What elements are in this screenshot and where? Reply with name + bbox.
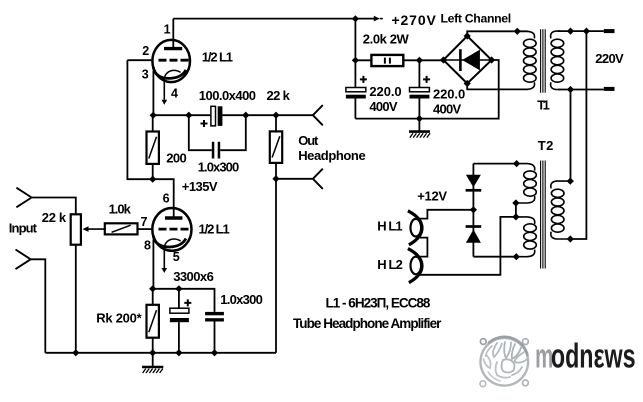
node: T2 primary bottom junction bbox=[567, 235, 574, 242]
node: junction T1 primary top lead bbox=[514, 28, 521, 35]
svg-text:7: 7 bbox=[141, 215, 148, 229]
svg-text:1.0x300: 1.0x300 bbox=[198, 160, 240, 175]
wire: +12V node to HL1 top lead bbox=[420, 210, 474, 219]
node: junction top rail / filter drop bbox=[352, 15, 359, 22]
resistor Rk 200 bbox=[147, 305, 159, 338]
transformer T2 primary winding bbox=[551, 181, 571, 239]
node: junction secondary bottom / vertical A bbox=[567, 86, 574, 93]
transformer T1 core bbox=[541, 29, 546, 93]
terminal: 220V top bbox=[604, 29, 615, 33]
wire: C 1.0x300 bottom lead bbox=[214, 322, 216, 353]
node: junction cathode rail / C 3300 top bbox=[175, 285, 182, 292]
svg-text:2: 2 bbox=[142, 44, 149, 58]
transformer T2 core bbox=[541, 161, 546, 269]
wire: V1 plate lead pin1 to top rail bbox=[172, 19, 174, 49]
node: junction C3300 bottom bbox=[175, 349, 182, 356]
svg-text:1: 1 bbox=[164, 23, 171, 37]
svg-text:L1 - 6Н23П, ECC88: L1 - 6Н23П, ECC88 bbox=[326, 296, 431, 311]
wire: C2 top lead bbox=[418, 60, 420, 87]
transformer T2 secondary upper winding bbox=[516, 164, 536, 203]
wire: C1 bottom lead bbox=[354, 99, 356, 119]
svg-text:H L1: H L1 bbox=[377, 219, 402, 234]
svg-text:220.0: 220.0 bbox=[369, 84, 401, 99]
tube V1b cathode bbox=[153, 236, 186, 247]
svg-text:1/2 L1: 1/2 L1 bbox=[199, 222, 230, 237]
lamp HL2 heater bbox=[408, 249, 422, 283]
wire: V1a cathode lead pin3 to output rail bbox=[152, 71, 154, 115]
transformer T1 secondary winding bbox=[551, 31, 564, 89]
svg-text:+270V: +270V bbox=[392, 12, 437, 28]
wire: bridge bottom corner to T1 primary bottom bbox=[467, 84, 527, 90]
node: T2 secondary upper bottom junction bbox=[512, 199, 519, 206]
capacitor C 100.0x400 coupling bbox=[201, 106, 223, 127]
logo: modnews fan graphic bbox=[480, 337, 528, 387]
svg-text:8: 8 bbox=[144, 239, 151, 253]
svg-text:200: 200 bbox=[166, 151, 186, 166]
wire: cathode node rail bbox=[153, 289, 215, 312]
tube V1a upper triode envelope bbox=[152, 40, 190, 82]
ground: filter ground symbol bbox=[409, 119, 430, 138]
wire: vertical A T1 bottom to T2 right top bbox=[570, 90, 572, 182]
svg-text:T2: T2 bbox=[538, 138, 554, 153]
tube V1b heater arc bbox=[164, 239, 180, 247]
svg-text:+12V: +12V bbox=[417, 188, 447, 203]
svg-text:T1: T1 bbox=[537, 97, 550, 112]
node: junction C1.0x300 bottom bbox=[211, 349, 218, 356]
transformer T1 primary winding bbox=[524, 31, 537, 89]
node: T2 secondary upper top junction bbox=[513, 160, 520, 167]
svg-text:Left Channel: Left Channel bbox=[441, 11, 512, 25]
wire: output rail left segment bbox=[153, 114, 211, 116]
node: +12V junction between diodes bbox=[470, 206, 477, 213]
wire: bypass loop right bbox=[220, 115, 246, 150]
svg-text:+135V: +135V bbox=[182, 179, 218, 194]
resistor R 22k output bbox=[270, 131, 282, 163]
svg-text:4: 4 bbox=[171, 87, 178, 101]
svg-text:6: 6 bbox=[163, 191, 170, 205]
capacitor C1 220.0 400V bbox=[346, 76, 367, 99]
node: bridge left corner bbox=[440, 56, 447, 63]
bridge rectifier diamond bbox=[443, 36, 491, 84]
wire: ground rail to bridge right corner bbox=[355, 60, 498, 119]
wire: bottom ground rail bbox=[45, 352, 276, 354]
ground: main ground symbol bbox=[142, 353, 163, 373]
node: +135V node junction bbox=[149, 176, 156, 183]
wire: V1a grid lead pin2 bbox=[127, 59, 152, 61]
wire: filter node to R 2.0k left lead bbox=[355, 59, 371, 61]
resistor R 1.0k grid stopper bbox=[105, 223, 138, 234]
wire: input sleeve to ground rail bbox=[31, 259, 46, 353]
svg-text:1.0x300: 1.0x300 bbox=[220, 292, 262, 307]
terminal: 220V bottom bbox=[604, 87, 615, 91]
arrow: +270V supply arrow bbox=[355, 16, 382, 22]
wire: drop from top rail to filter node bbox=[354, 19, 356, 61]
svg-text:1/2 L1: 1/2 L1 bbox=[202, 50, 233, 65]
wire: T2 center tap series link bbox=[515, 203, 517, 217]
jack: headphone sleeve bbox=[276, 169, 323, 189]
wire: R200 bottom lead bbox=[152, 164, 154, 179]
tube V1a plate bbox=[164, 47, 182, 50]
node: junction cathode node left bbox=[149, 285, 156, 292]
svg-text:Headphone: Headphone bbox=[298, 148, 366, 163]
tube V1b lower triode envelope bbox=[152, 208, 191, 251]
wire: bypass loop left bbox=[189, 115, 212, 150]
wire: input tip to pot top bbox=[32, 198, 76, 215]
node: bridge top corner bbox=[464, 32, 471, 39]
diode D2 (bottom) bbox=[466, 227, 482, 243]
wire: T2 lower winding bottom to diode D2 bbox=[473, 256, 516, 258]
wire: V1b cathode lead pin8 bbox=[152, 240, 154, 289]
wire: T1 secondary top to 220V terminal bbox=[558, 30, 604, 32]
arrow: pot wiper bbox=[83, 226, 105, 232]
svg-text:100.0x400: 100.0x400 bbox=[199, 88, 256, 103]
capacitor C2 220.0 400V bbox=[410, 76, 431, 99]
wire: Rk bottom lead bbox=[152, 338, 154, 353]
jack: headphone tip bbox=[313, 105, 323, 125]
arrow: V1b heater pin 5 bbox=[162, 247, 168, 273]
svg-text:Tube Headphone Amplifier: Tube Headphone Amplifier bbox=[293, 316, 442, 331]
arrow: V1a heater pin 4 bbox=[162, 79, 168, 105]
wire: C 3300 bottom lead bbox=[178, 322, 180, 353]
node: junction pot bottom bbox=[72, 349, 79, 356]
wire: output resistor bottom lead down to ground rail bbox=[275, 163, 277, 353]
svg-text:odnεws: odnεws bbox=[551, 338, 636, 375]
wire: V1b grid lead pin7 bbox=[138, 228, 153, 230]
wire: C 3300 top lead bbox=[178, 289, 180, 308]
capacitor C 1.0x300 cathode bbox=[205, 312, 224, 322]
svg-text:3: 3 bbox=[142, 68, 149, 82]
wire: diode column vertical bbox=[472, 164, 474, 257]
wire: pot bottom lead bbox=[75, 245, 77, 353]
wire: bridge top corner to T1 primary top bbox=[467, 31, 527, 36]
wire: +270V top rail bbox=[173, 18, 355, 20]
node: bridge bottom corner bbox=[464, 80, 471, 87]
node: junction right of R 2.0k / C2 top bbox=[416, 57, 423, 64]
wire: vertical B T1 top to T2 right bottom bbox=[570, 31, 586, 239]
tube V1a heater arc bbox=[164, 70, 180, 78]
node: junction secondary top / vertical B bbox=[583, 28, 590, 35]
wire: T1 secondary bottom to 220V terminal bbox=[558, 89, 604, 91]
svg-text:5: 5 bbox=[173, 250, 180, 264]
wire: R 2.0k right lead to bridge left corner bbox=[403, 59, 443, 61]
svg-text:3300x6: 3300x6 bbox=[173, 269, 214, 284]
svg-text:2.0k 2W: 2.0k 2W bbox=[363, 32, 410, 47]
wire: C1 top lead bbox=[354, 60, 356, 87]
node: T2 primary top junction bbox=[567, 178, 574, 185]
svg-text:H L2: H L2 bbox=[377, 257, 403, 272]
svg-text:220V: 220V bbox=[595, 51, 624, 66]
diode D1 (top) bbox=[466, 175, 482, 191]
svg-text:22 k: 22 k bbox=[267, 88, 291, 103]
node: junction cathode / output rail bbox=[150, 112, 157, 119]
wire: HL1 bottom to HL2 top bbox=[418, 238, 427, 257]
wire: Rk top lead bbox=[152, 289, 154, 305]
svg-text:400V: 400V bbox=[369, 99, 398, 114]
tube V1a cathode bbox=[153, 67, 186, 78]
resistor R 2.0k 2W bbox=[371, 55, 403, 66]
svg-text:Out: Out bbox=[298, 133, 319, 148]
wire: output resistor top lead bbox=[275, 115, 277, 131]
node: junction headphone sleeve bbox=[272, 175, 279, 182]
node: T2 center tap junction bbox=[512, 213, 519, 220]
node: T2 secondary lower bottom junction bbox=[513, 253, 520, 260]
node: junction output resistor top bbox=[272, 112, 279, 119]
tube V1b grid bbox=[159, 228, 189, 231]
tube V1b plate bbox=[165, 216, 182, 219]
svg-text:22 k: 22 k bbox=[42, 210, 67, 225]
wire: grid feedback line to +135V node bbox=[127, 60, 173, 218]
wire: C2 bottom lead bbox=[418, 99, 420, 119]
node: junction bypass branch left bbox=[185, 112, 192, 119]
svg-text:400V: 400V bbox=[433, 101, 462, 116]
wire: R200 top lead bbox=[152, 115, 154, 131]
lamp HL1 heater bbox=[408, 211, 422, 245]
node: junction ground rail / C2 bottom bbox=[416, 115, 423, 122]
capacitor C 1.0x300 coupling bypass bbox=[212, 142, 220, 159]
node: junction bypass branch right bbox=[242, 112, 249, 119]
svg-text:220.0: 220.0 bbox=[433, 86, 465, 101]
svg-text:Input: Input bbox=[9, 221, 38, 236]
capacitor C 3300x6 bbox=[170, 299, 191, 322]
node: filter node left of R 2.0k bbox=[352, 57, 359, 64]
jack: input tip bbox=[16, 188, 31, 208]
wire: output rail right segment bbox=[222, 114, 313, 116]
wire: HL2 bottom to T2 center tap bbox=[420, 217, 516, 275]
node: junction secondary top / vertical A bbox=[567, 28, 574, 35]
svg-text:Rk 200*: Rk 200* bbox=[96, 311, 142, 326]
wire: T2 upper winding top to diode D1 bbox=[473, 163, 516, 165]
jack: input sleeve bbox=[16, 250, 31, 270]
node: bridge right corner bbox=[488, 56, 495, 63]
transformer T2 secondary lower winding bbox=[516, 217, 536, 257]
logo: modnews wordmark bbox=[535, 337, 635, 375]
node: junction Rk bottom bbox=[149, 349, 156, 356]
tube V1a grid bbox=[159, 59, 189, 62]
potentiometer R 22k volume bbox=[71, 214, 81, 244]
svg-text:1.0k: 1.0k bbox=[109, 201, 132, 216]
resistor R 200 bbox=[147, 132, 159, 164]
